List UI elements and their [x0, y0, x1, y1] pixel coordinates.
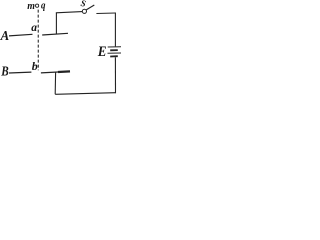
wire: bottom plate right thick end	[58, 70, 70, 73]
wire: top plate left segment (plate A)	[9, 34, 33, 36]
battery E long plate 1	[108, 46, 121, 48]
switch S pivot circle	[82, 9, 86, 13]
svg-text:a: a	[31, 22, 37, 34]
wire: right vertical lower (battery - to bottom rail)	[114, 57, 116, 93]
wire: bottom plate left segment (plate B)	[9, 71, 31, 74]
battery E short thick plate 2	[110, 55, 118, 57]
battery E long plate 2	[108, 52, 122, 54]
switch S arm (open)	[86, 5, 94, 10]
particle path (dashed)	[37, 10, 39, 71]
svg-text:m: m	[27, 0, 35, 12]
wire: right vertical upper (corner to battery +)	[114, 13, 116, 47]
svg-text:b: b	[32, 59, 38, 73]
particle m,q circle	[36, 4, 39, 7]
svg-text:B: B	[0, 63, 8, 78]
wire: top plate right segment	[42, 33, 68, 35]
svg-text:E: E	[97, 43, 107, 60]
wire: bottom rail	[55, 93, 115, 95]
wire: top horizontal to switch S	[56, 12, 82, 13]
svg-text:A: A	[0, 27, 9, 43]
wire: bottom plate right segment	[41, 71, 70, 73]
wire: switch right stub to corner	[96, 12, 115, 15]
wire: drop from bottom plate to rail	[54, 73, 56, 95]
battery E short thick plate 1	[110, 49, 118, 51]
svg-text:q: q	[41, 0, 46, 12]
wire: riser from top plate up to switch wire	[55, 13, 57, 35]
